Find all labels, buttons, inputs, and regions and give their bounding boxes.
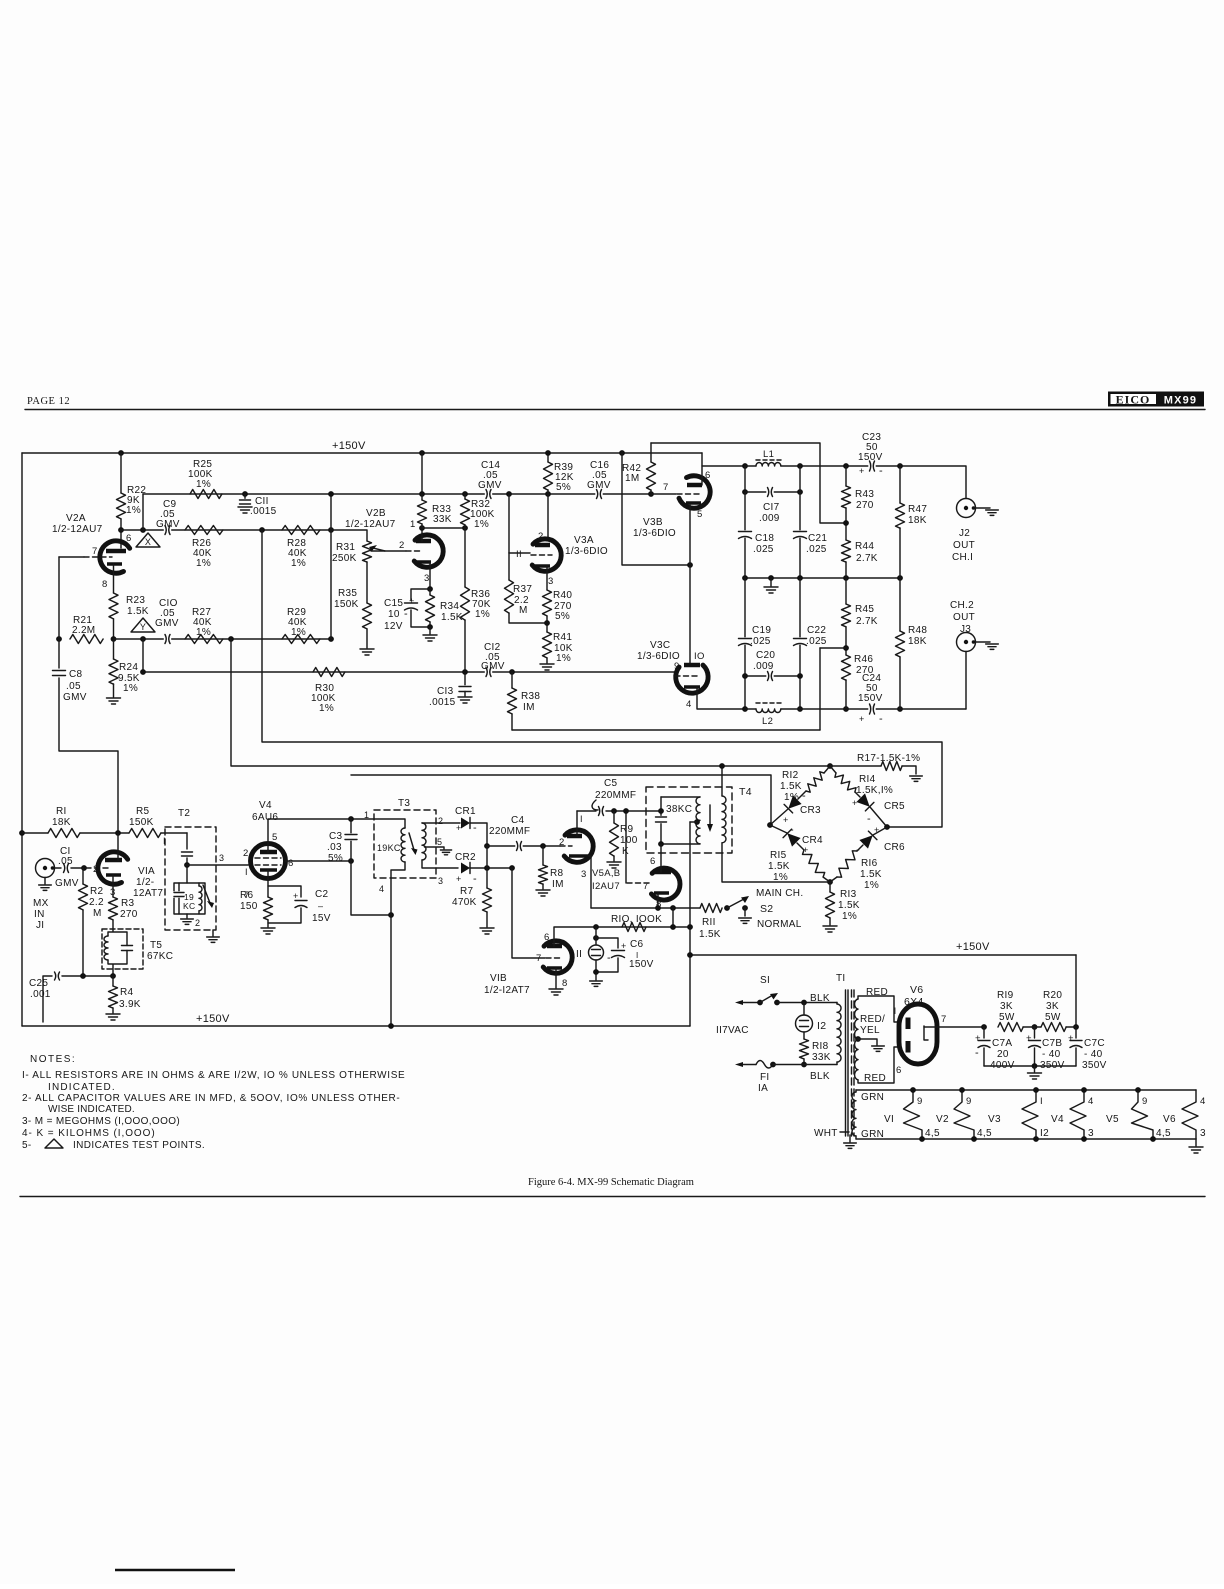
svg-text:1%: 1% xyxy=(123,683,138,694)
svg-text:2.7K: 2.7K xyxy=(856,553,878,564)
junction xyxy=(655,905,661,911)
wire R13 bottom xyxy=(829,918,831,925)
svg-text:-: - xyxy=(879,713,883,725)
svg-text:8: 8 xyxy=(562,978,568,989)
V1A grid wire xyxy=(86,867,108,869)
capacitor C7A xyxy=(977,1039,992,1046)
resistor R37 xyxy=(505,580,514,613)
resistor R7 xyxy=(483,888,492,912)
wire to V1B grid xyxy=(512,868,545,958)
neon lamp I1 xyxy=(589,945,604,960)
capacitor C8 xyxy=(51,669,67,676)
wire bridge NW stub xyxy=(824,766,830,773)
junction xyxy=(110,973,116,979)
svg-text:I2: I2 xyxy=(1040,1128,1049,1139)
svg-text:5W: 5W xyxy=(1045,1012,1061,1023)
capacitor C11 xyxy=(238,499,252,505)
neon lamp I2 xyxy=(796,1015,813,1032)
svg-text:+: + xyxy=(975,1033,981,1044)
resistor R42 xyxy=(647,462,656,490)
wire R7 top xyxy=(486,868,488,888)
junction xyxy=(981,1024,987,1030)
wire C7A top xyxy=(983,1027,985,1038)
junction xyxy=(419,450,425,456)
svg-text:+: + xyxy=(621,941,627,951)
triode V2A xyxy=(100,541,130,573)
wire R35 bottom xyxy=(366,629,368,648)
wire J1 ground stem xyxy=(44,878,46,885)
svg-text:150K: 150K xyxy=(129,817,154,828)
inductor L2 xyxy=(756,709,781,712)
ground J2 xyxy=(986,510,999,515)
junction xyxy=(328,636,334,642)
svg-text:C4: C4 xyxy=(511,815,525,826)
svg-text:1.5K: 1.5K xyxy=(860,869,882,880)
junction xyxy=(509,669,515,675)
junction xyxy=(228,636,234,642)
svg-text:12V: 12V xyxy=(384,621,403,632)
svg-text:V2A: V2A xyxy=(66,513,86,524)
wire C7B bottom xyxy=(1034,1048,1036,1066)
wire heater bottom rail xyxy=(856,1138,1196,1140)
svg-text:+150V: +150V xyxy=(196,1013,230,1025)
ground V1B xyxy=(549,989,563,995)
junction xyxy=(742,706,748,712)
junction xyxy=(670,924,676,930)
wire T3 sec bottom to CR2 xyxy=(422,860,458,868)
svg-text:C7C: C7C xyxy=(1084,1038,1105,1049)
svg-text:-: - xyxy=(473,822,477,834)
junction xyxy=(140,636,146,642)
svg-text:7: 7 xyxy=(92,546,98,557)
svg-text:4: 4 xyxy=(686,699,692,710)
svg-text:C18: C18 xyxy=(755,533,774,544)
wire center bus xyxy=(745,577,900,579)
wire T4 secondary top lead xyxy=(721,766,723,796)
wire cathode row to R11 xyxy=(591,907,700,909)
svg-text:Y: Y xyxy=(140,622,146,632)
svg-text:CR6: CR6 xyxy=(884,842,905,853)
svg-text:1.5K: 1.5K xyxy=(780,781,802,792)
heater V1 xyxy=(904,1090,923,1139)
wire R19 R20 links xyxy=(1023,1026,1076,1028)
svg-text:R46: R46 xyxy=(854,654,873,665)
T4 primary coil xyxy=(696,797,700,844)
wire R36 bottom xyxy=(464,620,466,672)
svg-text:C7B: C7B xyxy=(1042,1038,1062,1049)
junction xyxy=(670,905,676,911)
svg-text:IO: IO xyxy=(694,651,705,662)
svg-text:10: 10 xyxy=(388,609,400,620)
wire V5B plate to tank xyxy=(660,844,662,872)
wire R42 top lead xyxy=(650,443,652,462)
svg-text:R38: R38 xyxy=(521,691,540,702)
svg-text:WHT: WHT xyxy=(814,1128,838,1139)
heater V2 xyxy=(954,1090,974,1139)
V3A cathode bar xyxy=(535,564,550,568)
junction xyxy=(797,489,803,495)
svg-text:150V: 150V xyxy=(629,959,654,970)
triode V1B xyxy=(543,941,572,973)
svg-text:+: + xyxy=(1068,1033,1074,1044)
wire C7C top xyxy=(1075,1027,1077,1038)
svg-text:V3C: V3C xyxy=(650,640,670,651)
svg-text:150: 150 xyxy=(240,901,258,912)
wire R2 leads xyxy=(82,868,84,976)
line terminal top xyxy=(735,1000,743,1005)
wire R6 bottom xyxy=(267,920,269,927)
svg-text:YEL: YEL xyxy=(860,1025,880,1036)
svg-text:20: 20 xyxy=(997,1049,1009,1060)
wire 494 row xyxy=(143,493,651,495)
svg-text:GMV: GMV xyxy=(155,618,179,629)
capacitor C6 xyxy=(610,949,626,956)
junction xyxy=(140,527,146,533)
wire R38 top xyxy=(511,672,513,688)
V2B grid dash outer xyxy=(406,550,420,552)
svg-text:EICO: EICO xyxy=(1116,393,1151,407)
svg-text:CR2: CR2 xyxy=(455,852,476,863)
svg-text:2: 2 xyxy=(538,531,544,542)
svg-text:GMV: GMV xyxy=(481,661,505,672)
svg-text:1%: 1% xyxy=(291,627,306,638)
wire feed to R43 R44 node xyxy=(651,443,847,523)
wire T2 tank coil leads xyxy=(198,883,200,914)
resistor R12 xyxy=(806,772,824,792)
wire to ground xyxy=(429,627,431,634)
wire V5A plate lead xyxy=(576,811,578,836)
capacitor C24 xyxy=(868,703,875,716)
resistor R41 xyxy=(543,632,552,658)
svg-text:1%: 1% xyxy=(842,911,857,922)
ground S2 xyxy=(739,918,752,923)
T5 capacitor xyxy=(120,944,134,951)
ground J3 xyxy=(986,644,999,649)
svg-text:3: 3 xyxy=(581,869,587,880)
junction xyxy=(19,830,25,836)
svg-text:220MMF: 220MMF xyxy=(489,826,530,837)
svg-text:1/2-: 1/2- xyxy=(136,877,154,888)
svg-text:+: + xyxy=(1026,1033,1032,1044)
capacitor C7B xyxy=(1027,1039,1042,1046)
svg-text:1M: 1M xyxy=(625,473,640,484)
svg-text:INDICATED.: INDICATED. xyxy=(48,1082,115,1093)
wire to T1 primary top xyxy=(777,1002,837,1004)
resistor R17 xyxy=(881,762,902,771)
svg-text:RII: RII xyxy=(702,917,716,928)
svg-text:INDICATES TEST POINTS.: INDICATES TEST POINTS. xyxy=(73,1140,205,1151)
V3C cathode bar xyxy=(684,685,700,689)
wire bridge top to R17 xyxy=(830,765,881,767)
svg-text:67KC: 67KC xyxy=(147,951,173,962)
svg-text:1/2-I2AT7: 1/2-I2AT7 xyxy=(484,985,530,996)
svg-text:2: 2 xyxy=(195,918,200,928)
svg-text:7: 7 xyxy=(663,482,669,493)
svg-text:WISE INDICATED.: WISE INDICATED. xyxy=(48,1104,135,1115)
junction xyxy=(797,706,803,712)
diode CR1 xyxy=(461,818,470,829)
left border B+ rail xyxy=(21,453,23,1026)
svg-text:R6: R6 xyxy=(240,890,254,901)
triode V3A xyxy=(532,539,561,571)
svg-text:3K: 3K xyxy=(1046,1001,1059,1012)
V1A plate bar xyxy=(105,858,122,863)
svg-text:IN: IN xyxy=(34,909,45,920)
wire feedback to bridge right corner xyxy=(262,530,942,827)
junction xyxy=(484,843,490,849)
wire T2 shield xyxy=(212,930,214,936)
svg-text:CR1: CR1 xyxy=(455,806,476,817)
svg-text:R4: R4 xyxy=(120,987,134,998)
svg-text:RI6: RI6 xyxy=(861,858,878,869)
ground C13 xyxy=(458,697,472,703)
junction xyxy=(540,843,546,849)
junction xyxy=(545,491,551,497)
ground R13 xyxy=(823,926,837,932)
wire line bottom xyxy=(743,1064,756,1066)
junction xyxy=(242,491,248,497)
resistor R44 xyxy=(842,540,851,562)
T3 secondary coil xyxy=(422,823,426,860)
svg-text:VIA: VIA xyxy=(138,866,155,877)
junction xyxy=(694,819,700,825)
svg-text:.025: .025 xyxy=(806,544,827,555)
wire V4 screen row to T3 xyxy=(268,819,405,852)
junction xyxy=(115,830,121,836)
svg-text:6: 6 xyxy=(126,533,132,544)
jack J2 xyxy=(957,499,976,518)
junction xyxy=(742,463,748,469)
svg-text:5: 5 xyxy=(272,832,278,843)
WHT lead xyxy=(840,1131,849,1133)
wire filter ground rail xyxy=(984,1065,1076,1067)
svg-text:RI4: RI4 xyxy=(859,774,876,785)
svg-text:2.2: 2.2 xyxy=(89,897,104,908)
svg-text:6: 6 xyxy=(705,470,711,481)
resistor R15 xyxy=(803,850,825,877)
svg-text:9: 9 xyxy=(966,1096,972,1107)
svg-text:1%: 1% xyxy=(196,627,211,638)
wire R9 bottom xyxy=(613,856,615,861)
junction xyxy=(797,575,803,581)
wire R31 to R35 xyxy=(366,562,368,603)
notes text xyxy=(22,1054,405,1151)
junction xyxy=(81,865,87,871)
svg-text:1.5K: 1.5K xyxy=(768,861,790,872)
wire C13 to ground xyxy=(464,692,466,697)
svg-text:RI: RI xyxy=(56,806,67,817)
svg-text:II: II xyxy=(576,949,582,960)
svg-text:R7: R7 xyxy=(460,886,474,897)
wire bus corner to L1 xyxy=(702,453,745,466)
wire HV center tap xyxy=(858,1039,877,1045)
svg-text:150V: 150V xyxy=(858,693,883,704)
svg-text:C7A: C7A xyxy=(992,1038,1012,1049)
junction xyxy=(897,575,903,581)
svg-text:8: 8 xyxy=(102,579,108,590)
T1 filament winding xyxy=(852,1092,856,1136)
svg-text:5: 5 xyxy=(697,509,703,520)
V5A cathode bar xyxy=(569,854,589,858)
V3A grid dash xyxy=(531,554,552,556)
line terminal bottom xyxy=(735,1062,743,1067)
ground R6 xyxy=(261,928,275,934)
V4 plate bar xyxy=(260,850,277,855)
svg-text:2.7K: 2.7K xyxy=(856,616,878,627)
resistor R34 xyxy=(426,595,435,622)
svg-text:RI8: RI8 xyxy=(812,1041,829,1052)
wire T3 sec top to CR1 xyxy=(422,822,460,824)
transformer T3 box xyxy=(374,810,436,878)
svg-text:.0015: .0015 xyxy=(429,697,456,708)
test point Y xyxy=(131,618,155,632)
svg-text:33K: 33K xyxy=(433,514,452,525)
wire primary tap xyxy=(690,821,697,823)
svg-text:R9: R9 xyxy=(620,824,634,835)
wire R38 return row xyxy=(512,729,820,731)
wire V3C cathode to L2 row xyxy=(697,687,745,709)
svg-text:9: 9 xyxy=(1142,1096,1148,1107)
junction xyxy=(843,645,849,651)
V4 grid dash 2 xyxy=(255,864,281,866)
svg-text:470K: 470K xyxy=(452,897,477,908)
T5 interconnect xyxy=(108,929,127,976)
transformer T5 box xyxy=(102,929,143,969)
resistor R29 xyxy=(282,635,320,644)
svg-text:C8: C8 xyxy=(69,669,83,680)
junction xyxy=(801,1062,807,1068)
svg-text:CR3: CR3 xyxy=(800,805,821,816)
wire line top xyxy=(743,1002,760,1004)
wire C9 node up xyxy=(142,494,144,530)
S2 normal contact xyxy=(742,905,748,911)
svg-text:1: 1 xyxy=(410,519,416,530)
svg-text:1/2-12AU7: 1/2-12AU7 xyxy=(52,524,103,535)
junction xyxy=(506,491,512,497)
svg-text:100: 100 xyxy=(620,835,638,846)
svg-text:220MMF: 220MMF xyxy=(595,790,636,801)
svg-text:R5: R5 xyxy=(136,806,150,817)
junction xyxy=(140,669,146,675)
wire R37 upper lead xyxy=(508,553,510,580)
wire C6 top bracket xyxy=(596,938,618,948)
svg-text:2.2M: 2.2M xyxy=(72,625,95,636)
svg-text:V5A,B: V5A,B xyxy=(592,868,620,879)
bottom page mark xyxy=(115,1569,235,1572)
junction xyxy=(328,527,334,533)
svg-text:VIB: VIB xyxy=(490,973,507,984)
junction xyxy=(719,763,725,769)
svg-text:150V: 150V xyxy=(858,452,883,463)
triode V3C xyxy=(676,665,708,693)
svg-text:GMV: GMV xyxy=(156,519,180,530)
heater V4 xyxy=(1070,1090,1086,1139)
svg-text:15V: 15V xyxy=(312,913,331,924)
svg-text:RI3: RI3 xyxy=(840,889,857,900)
svg-text:I2AU7: I2AU7 xyxy=(592,881,620,892)
svg-text:R44: R44 xyxy=(855,541,874,552)
wire heater top rail xyxy=(856,1089,1196,1091)
inductor L2 core dash xyxy=(756,702,781,704)
svg-text:1.5K: 1.5K xyxy=(699,929,721,940)
svg-text:GRN: GRN xyxy=(861,1092,884,1103)
wire bridge left corner feed xyxy=(351,775,771,825)
triode V2B xyxy=(414,535,443,567)
wire CR3 leads xyxy=(770,791,806,825)
svg-text:CH.2: CH.2 xyxy=(950,600,974,611)
V1A cathode bar xyxy=(106,873,121,877)
svg-text:1%: 1% xyxy=(291,558,306,569)
svg-text:33K: 33K xyxy=(812,1052,831,1063)
wire J3 to rail xyxy=(965,652,967,710)
svg-text:X: X xyxy=(145,537,151,547)
resistor R6 xyxy=(264,897,273,920)
junction xyxy=(388,912,394,918)
wire R22 bottom to plate xyxy=(120,519,122,548)
T4 secondary coil xyxy=(722,796,726,843)
svg-text:T5: T5 xyxy=(150,940,162,951)
capacitor C22 xyxy=(792,637,808,644)
ground R4 xyxy=(106,1014,120,1020)
svg-text:R8: R8 xyxy=(550,868,564,879)
svg-text:3: 3 xyxy=(1088,1128,1094,1139)
C5 leader curve xyxy=(592,800,598,810)
wire C3 column xyxy=(350,819,352,861)
svg-text:5W: 5W xyxy=(999,1012,1015,1023)
junction xyxy=(797,673,803,679)
svg-text:.025: .025 xyxy=(806,636,827,647)
junction xyxy=(484,865,490,871)
junction xyxy=(419,525,425,531)
V6 plate bars xyxy=(906,1018,911,1030)
svg-text:1/2-12AU7: 1/2-12AU7 xyxy=(345,519,396,530)
junction xyxy=(545,450,551,456)
svg-text:+: + xyxy=(409,596,415,606)
triode V1A xyxy=(98,852,128,884)
wire R43 top xyxy=(845,466,847,486)
svg-text:II: II xyxy=(516,549,522,560)
svg-text:R47: R47 xyxy=(908,504,927,515)
junction xyxy=(797,463,803,469)
svg-text:5-: 5- xyxy=(22,1140,32,1151)
wire T2 tank cap leads xyxy=(178,883,180,914)
wire T2 tank ground stem xyxy=(186,914,188,918)
wire R3 to T5 xyxy=(112,920,114,929)
wire CR5 leads xyxy=(855,792,887,827)
wire R32 to R36 xyxy=(464,528,466,587)
wire V2B cathode lead xyxy=(429,562,431,589)
test point X xyxy=(136,533,160,547)
svg-text:C22: C22 xyxy=(807,625,826,636)
svg-text:T3: T3 xyxy=(398,798,410,809)
svg-text:RI2: RI2 xyxy=(782,770,799,781)
V5A grid wire xyxy=(560,845,572,847)
triode V5A xyxy=(564,830,593,862)
svg-text:.05: .05 xyxy=(58,856,73,867)
capacitor C9 xyxy=(164,524,171,536)
svg-text:GRN: GRN xyxy=(861,1129,884,1140)
V3B grid dash xyxy=(677,493,700,495)
T3 tuning arrow xyxy=(409,833,414,850)
svg-text:C3: C3 xyxy=(329,831,343,842)
wire J2 ground lead xyxy=(976,507,991,509)
svg-text:4: 4 xyxy=(1200,1096,1206,1107)
junction xyxy=(724,905,730,911)
resistor R13 xyxy=(826,892,835,918)
wire C13 stem xyxy=(464,672,466,685)
svg-text:1.5K: 1.5K xyxy=(838,900,860,911)
transformer T2 box xyxy=(165,827,216,930)
